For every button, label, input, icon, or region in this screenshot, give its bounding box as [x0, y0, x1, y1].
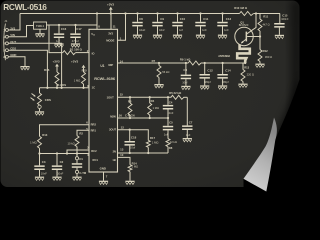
- svg-text:J1: J1: [4, 19, 8, 23]
- capacitor C16: [54, 25, 67, 43]
- svg-text:R12: R12: [263, 49, 269, 53]
- svg-text:C3: C3: [42, 160, 46, 164]
- svg-text:R2: R2: [79, 132, 83, 136]
- svg-text:BFR520: BFR520: [239, 23, 249, 27]
- svg-text:C4: C4: [169, 100, 173, 104]
- svg-text:1 MΩ: 1 MΩ: [74, 78, 81, 82]
- node C18-top: [129, 129, 131, 131]
- resistor R7 56k: [152, 59, 170, 84]
- svg-text:R16: R16: [44, 68, 50, 72]
- resistor R11 4k7: [258, 14, 270, 37]
- svg-text:C16: C16: [61, 27, 67, 31]
- ground R7: [154, 84, 163, 88]
- node R17-bottom: [147, 152, 149, 154]
- page curl shadow: [264, 76, 300, 192]
- node CDS-junction: [46, 87, 48, 89]
- svg-text:R5 22 kΩ: R5 22 kΩ: [169, 91, 182, 95]
- resistor R14 1M: [128, 161, 138, 180]
- wire pin14 MIP: [118, 62, 189, 64]
- svg-text:+3V3: +3V3: [52, 59, 59, 63]
- svg-text:C13: C13: [226, 17, 232, 21]
- svg-text:C-TM: C-TM: [79, 171, 86, 175]
- wire pin10: [118, 157, 131, 164]
- svg-text:C-R-CN: C-R-CN: [125, 114, 135, 118]
- svg-text:C8: C8: [183, 68, 187, 72]
- resistor R4 1M: [148, 96, 159, 118]
- wire RC2: [67, 150, 89, 154]
- svg-text:C6: C6: [139, 17, 143, 21]
- resistor R16: [44, 68, 59, 88]
- wire OUT: [8, 43, 61, 88]
- svg-text:R13: R13: [244, 66, 249, 70]
- svg-text:12: 12: [121, 125, 125, 129]
- op-amp U1 RCWL-9196: [89, 29, 118, 172]
- ground C10: [173, 35, 182, 39]
- wire pin16: [118, 117, 169, 119]
- node C4-bottom: [167, 117, 169, 119]
- svg-text:10uF: 10uF: [139, 28, 145, 32]
- ground J1: [20, 66, 29, 70]
- svg-text:3OUT: 3OUT: [109, 128, 117, 132]
- node rail-C16: [58, 24, 60, 26]
- svg-text:C18: C18: [131, 136, 137, 140]
- svg-text:R17: R17: [150, 136, 156, 140]
- svg-text:U1: U1: [100, 64, 104, 68]
- svg-text:ANTENNA: ANTENNA: [218, 55, 230, 58]
- page background: [1, 1, 300, 188]
- capacitor C11: [195, 12, 208, 34]
- svg-text:R7: R7: [152, 59, 156, 63]
- svg-text:10nF: 10nF: [41, 172, 47, 176]
- svg-text:360 Ω: 360 Ω: [265, 55, 272, 59]
- ground C1: [72, 177, 81, 181]
- ground R12: [255, 64, 264, 68]
- svg-text:1uF: 1uF: [186, 133, 191, 137]
- node rail-C17: [74, 24, 76, 26]
- power +3V3 R15: [71, 59, 85, 72]
- svg-text:1 MΩ: 1 MΩ: [30, 141, 37, 145]
- ground C17: [71, 43, 80, 47]
- svg-text:C12: C12: [207, 69, 213, 73]
- node bus-Q1: [255, 12, 257, 14]
- svg-text:13: 13: [120, 148, 124, 152]
- svg-text:R13: R13: [42, 133, 48, 137]
- svg-text:1C: 1C: [92, 85, 95, 89]
- resistor R15 1M: [74, 68, 87, 88]
- svg-text:R9 1 kΩ: R9 1 kΩ: [180, 57, 191, 61]
- ground C9: [153, 35, 162, 39]
- svg-text:MODE: MODE: [106, 38, 114, 42]
- svg-text:15: 15: [120, 93, 124, 97]
- power +3V3 R16: [52, 59, 59, 72]
- svg-text:RCWL-9196: RCWL-9196: [94, 76, 116, 81]
- power +3V3 main: [107, 2, 114, 13]
- resistor R13b 220 ohm: [241, 62, 254, 84]
- capacitor C13: [217, 12, 231, 34]
- wire CDS: [8, 50, 47, 88]
- svg-text:1B: 1B: [112, 158, 115, 162]
- svg-text:R3: R3: [128, 99, 132, 103]
- svg-text:10uf: 10uf: [130, 146, 135, 150]
- resistor R8 22k: [166, 139, 177, 153]
- capacitor C6: [132, 12, 145, 34]
- wire pin3 row: [40, 87, 90, 89]
- ground R13b: [238, 84, 247, 88]
- ground C3: [35, 177, 44, 181]
- svg-text:R15: R15: [82, 68, 88, 72]
- capacitor C3 10nF: [34, 154, 47, 177]
- node bus-pin8: [96, 12, 98, 14]
- ground U1: [99, 181, 108, 185]
- capacitor C17: [70, 25, 82, 43]
- svg-text:RCWL-0516: RCWL-0516: [3, 2, 47, 12]
- node R2-bus: [76, 152, 78, 154]
- svg-text:R1 100 Ω: R1 100 Ω: [70, 48, 83, 52]
- ground C8: [181, 86, 190, 90]
- antenna coil: [218, 44, 250, 63]
- ground R14: [125, 181, 134, 185]
- wire VIN: [8, 26, 33, 37]
- resistor R13 1M: [30, 125, 89, 154]
- svg-text:C17: C17: [76, 27, 82, 31]
- svg-text:4k7 Ω: 4k7 Ω: [263, 22, 270, 26]
- svg-text:220 Ω: 220 Ω: [247, 73, 254, 77]
- svg-text:CDS: CDS: [45, 98, 51, 102]
- photoresistor CDS: [31, 88, 51, 112]
- svg-text:1nf: 1nf: [179, 28, 183, 32]
- ground C7: [183, 138, 192, 142]
- connector J1: [3, 19, 16, 60]
- svg-text:C1: C1: [79, 157, 83, 161]
- svg-text:M2N: M2N: [110, 114, 116, 118]
- node R15: [82, 87, 84, 89]
- svg-text:1OUT: 1OUT: [107, 95, 115, 99]
- ground T100-1: [39, 29, 41, 33]
- capacitor C14 680pf: [217, 62, 231, 86]
- svg-text:16: 16: [119, 113, 123, 117]
- wire pin11: [110, 14, 112, 30]
- node R13-bus: [38, 152, 40, 154]
- resistor R17 1M: [146, 136, 158, 153]
- svg-text:1 MΩ: 1 MΩ: [152, 140, 159, 144]
- svg-text:10 kΩ: 10 kΩ: [68, 141, 75, 145]
- svg-text:11: 11: [113, 24, 116, 28]
- wire pin12 3OUT: [118, 130, 149, 141]
- node R3-bottom: [129, 117, 131, 119]
- svg-text:10nF: 10nF: [57, 172, 63, 176]
- svg-text:3V3: 3V3: [108, 32, 113, 36]
- node R16-junction: [56, 87, 58, 89]
- node RC2-bus: [66, 152, 68, 154]
- svg-text:C2: C2: [60, 160, 64, 164]
- wire pin8 VDD: [96, 14, 98, 30]
- resistor R1 100 ohm: [49, 25, 89, 55]
- capacitor C7 1uF: [182, 97, 193, 138]
- node OUT-junction: [60, 87, 62, 89]
- svg-text:R10 1M Ω: R10 1M Ω: [234, 6, 248, 10]
- pin numbers U1: [86, 24, 124, 178]
- ground C12: [200, 85, 209, 89]
- wire pin7 GND: [103, 172, 105, 181]
- ground C15: [275, 35, 284, 39]
- capacitor C15 100nF: [274, 14, 289, 35]
- resistor R5 22k: [169, 91, 184, 99]
- svg-text:C10: C10: [180, 17, 186, 21]
- svg-text:C15: C15: [282, 14, 288, 18]
- svg-text:1nF: 1nF: [202, 28, 207, 32]
- svg-text:10: 10: [120, 153, 124, 157]
- svg-text:RR2: RR2: [91, 123, 97, 127]
- svg-text:1 MΩ: 1 MΩ: [132, 165, 139, 169]
- svg-text:10nf: 10nf: [159, 28, 164, 32]
- resistor R12 360 ohm: [258, 37, 272, 64]
- wire pin13 bus: [118, 152, 169, 154]
- svg-text:+3V3: +3V3: [71, 59, 78, 63]
- node base-R11: [259, 35, 261, 37]
- svg-text:10uf: 10uf: [182, 80, 187, 84]
- node bus-pin1: [124, 12, 126, 14]
- wire 3V3 rail: [47, 24, 98, 26]
- capacitor C4 10nF: [163, 96, 174, 118]
- capacitor C1: [72, 154, 87, 177]
- ground C6: [133, 35, 142, 39]
- wire pin1 MODE: [118, 14, 126, 41]
- wire 3V3: [8, 14, 20, 31]
- capacitor C5 1uF: [163, 118, 173, 139]
- node C18-bottom: [129, 152, 131, 154]
- svg-text:R4: R4: [151, 99, 155, 103]
- svg-text:+3V3: +3V3: [107, 2, 114, 6]
- ground C2: [52, 177, 61, 181]
- svg-text:RR1: RR1: [91, 129, 97, 133]
- svg-text:R11: R11: [263, 15, 268, 19]
- capacitor C10: [172, 12, 185, 34]
- capacitor C12 680pf: [200, 62, 214, 86]
- svg-text:C7: C7: [189, 121, 193, 125]
- resistor R10 1M: [234, 6, 253, 16]
- resistor R9 1k: [180, 57, 201, 65]
- svg-text:MIP: MIP: [108, 63, 113, 67]
- svg-text:R8: R8: [169, 146, 173, 150]
- svg-text:RC1: RC1: [93, 158, 99, 162]
- node bus-pin11: [110, 12, 112, 14]
- capacitor C9: [152, 12, 164, 34]
- wire +3V3 top bus: [20, 13, 240, 15]
- svg-text:C9: C9: [160, 17, 164, 21]
- svg-text:IO: IO: [92, 52, 95, 56]
- regulator U2 T100-1: [34, 22, 47, 29]
- ground C14: [218, 85, 227, 89]
- svg-text:1 MΩ: 1 MΩ: [153, 106, 160, 110]
- capacitor C18 10uf: [125, 130, 137, 153]
- page curl highlight: [244, 118, 277, 192]
- ground C16: [54, 43, 63, 47]
- svg-text:R-CDS: R-CDS: [57, 83, 66, 87]
- svg-text:T100-1: T100-1: [36, 25, 44, 28]
- capacitor C8: [181, 62, 191, 86]
- svg-text:GND: GND: [100, 167, 106, 171]
- svg-text:2N: 2N: [113, 150, 116, 154]
- svg-text:56 kΩ: 56 kΩ: [162, 70, 169, 74]
- svg-text:22 kΩ: 22 kΩ: [170, 140, 177, 144]
- svg-text:C11: C11: [203, 17, 209, 21]
- svg-text:100nF: 100nF: [281, 17, 289, 21]
- wire pin15 1OUT: [118, 96, 172, 98]
- svg-text:1nF: 1nF: [224, 28, 229, 32]
- page curl under-shadow: [244, 179, 267, 192]
- ground CDS: [35, 111, 44, 115]
- capacitor C2 10nF: [52, 152, 64, 176]
- resistor R2 10k: [68, 130, 89, 153]
- node R4-bottom: [149, 117, 151, 119]
- transistor Q1 BFR520: [235, 14, 260, 46]
- svg-text:RC2: RC2: [91, 149, 97, 153]
- ground C11: [196, 35, 205, 39]
- svg-text:C14: C14: [225, 69, 231, 73]
- right edge shadow: [291, 0, 302, 120]
- ground C13: [218, 35, 227, 39]
- wire GND: [8, 57, 25, 66]
- resistor R3: [128, 96, 132, 118]
- svg-text:C5: C5: [169, 121, 173, 125]
- wire left bottom bus: [40, 153, 90, 155]
- page curl cut: [267, 78, 301, 192]
